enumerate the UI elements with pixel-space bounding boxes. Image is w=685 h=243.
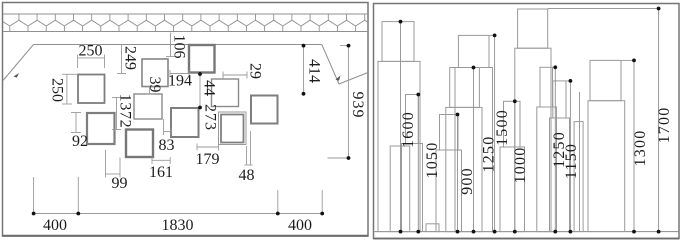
dim 106 xyxy=(166,33,175,57)
extension line 1700 xyxy=(548,8,659,10)
frame C xyxy=(134,94,162,119)
svg-text:106: 106 xyxy=(171,35,188,59)
svg-text:1300: 1300 xyxy=(632,130,649,167)
dim 99 xyxy=(106,150,121,178)
dim 39 xyxy=(145,87,154,94)
svg-text:250: 250 xyxy=(79,43,103,60)
column 1000 body xyxy=(500,147,525,232)
left panel bottom thick border xyxy=(3,235,369,237)
svg-text:1150: 1150 xyxy=(563,143,580,179)
svg-text:29: 29 xyxy=(246,63,263,79)
column 1600 body xyxy=(378,61,420,231)
dim 92 xyxy=(71,113,81,133)
column 1500 cap xyxy=(458,35,489,67)
dim 939 with dots xyxy=(348,46,350,158)
dim line 1700 xyxy=(658,9,660,232)
dim 48 xyxy=(245,131,253,165)
frame D xyxy=(126,130,153,158)
svg-text:1050: 1050 xyxy=(424,142,441,179)
column 1150 body xyxy=(550,118,570,232)
dim line 1600 xyxy=(400,22,402,232)
extension line 1300 xyxy=(621,59,634,61)
dim 161 xyxy=(152,157,170,164)
column 1250a cap xyxy=(450,68,480,108)
dim 83 xyxy=(164,119,172,135)
hatch band zigzag pattern xyxy=(0,14,374,32)
svg-text:92: 92 xyxy=(72,133,88,150)
column 1250a body xyxy=(446,107,482,231)
wall right break diagonal down xyxy=(322,45,339,85)
column 1600 cap xyxy=(382,22,414,62)
column 1050 cap xyxy=(406,95,419,144)
dim 1372 xyxy=(112,98,121,130)
svg-text:1372: 1372 xyxy=(117,94,134,128)
svg-text:1000: 1000 xyxy=(512,147,529,184)
svg-text:273: 273 xyxy=(202,104,219,131)
dim 44 / 273 with node dots xyxy=(199,74,201,108)
left panel border xyxy=(3,3,369,237)
dim line 1150 xyxy=(569,81,571,232)
svg-text:400: 400 xyxy=(288,217,312,234)
frame S5 xyxy=(212,79,239,107)
dim 414 with dots xyxy=(303,46,305,94)
svg-text:414: 414 xyxy=(306,59,323,83)
hidden column body xyxy=(390,146,410,232)
hatch band bottom line xyxy=(3,31,368,33)
dim 250 horizontal xyxy=(78,55,105,69)
small plinth xyxy=(426,224,439,232)
hidden column 2 body xyxy=(574,122,583,232)
frame S2 (250 square) xyxy=(78,75,105,104)
svg-text:1600: 1600 xyxy=(400,111,417,148)
column 1300 body xyxy=(588,101,625,232)
frame S4 (106 square) xyxy=(189,45,215,73)
svg-text:400: 400 xyxy=(43,217,67,234)
dim 250 vertical xyxy=(62,74,77,104)
right panel bottom thick border xyxy=(374,238,680,240)
svg-text:44: 44 xyxy=(201,80,218,96)
wall left break diagonal xyxy=(3,45,34,81)
svg-text:99: 99 xyxy=(112,175,128,192)
column 1000 cap xyxy=(504,101,521,147)
wall right break arrow xyxy=(336,76,341,81)
dim line 1050 xyxy=(417,95,419,232)
dim 179 xyxy=(197,144,219,151)
frame S3 xyxy=(142,59,168,87)
dim line 1250b xyxy=(554,67,556,231)
dim line 1250a xyxy=(473,68,475,232)
dim line 1500 xyxy=(494,35,496,231)
right panel border xyxy=(374,4,680,239)
wall top line xyxy=(34,44,322,46)
hatch band top line xyxy=(3,13,368,15)
column 1700 body xyxy=(515,48,551,231)
dim 29 xyxy=(223,72,247,79)
column 1700 cap xyxy=(518,9,548,48)
frame S6 outer xyxy=(219,112,247,145)
svg-text:939: 939 xyxy=(349,92,366,119)
dim line 1300 xyxy=(633,60,635,231)
column 1150 cap xyxy=(553,81,566,118)
frame S7 xyxy=(251,96,278,124)
dim 194 xyxy=(170,70,189,77)
svg-text:179: 179 xyxy=(196,151,220,168)
svg-text:161: 161 xyxy=(149,164,173,181)
column 900 cap xyxy=(440,115,459,151)
column 1300 cap xyxy=(590,60,621,100)
column 1250b body xyxy=(537,107,557,232)
extension line 1500 xyxy=(489,34,495,36)
svg-text:250: 250 xyxy=(49,78,66,102)
frame B (92 square) xyxy=(87,113,115,144)
dim line 900 xyxy=(457,115,459,232)
svg-text:48: 48 xyxy=(239,167,255,184)
svg-text:39: 39 xyxy=(146,77,163,93)
column 1250b cap xyxy=(540,67,553,107)
hidden column 2 edge xyxy=(579,92,581,232)
column 1500 body xyxy=(455,68,493,232)
dim 249 xyxy=(117,45,126,74)
column 1050 body xyxy=(402,144,423,232)
svg-text:194: 194 xyxy=(168,73,192,90)
svg-text:1700: 1700 xyxy=(656,107,673,144)
column 900 body xyxy=(436,150,462,232)
frame E xyxy=(171,108,199,137)
wall right break diagonal up to border xyxy=(339,73,368,85)
bottom dimension chain xyxy=(34,177,323,214)
wall left break arrow xyxy=(14,73,20,78)
svg-text:83: 83 xyxy=(159,137,175,154)
ground line xyxy=(375,231,680,233)
svg-text:1830: 1830 xyxy=(162,217,194,234)
dim line 1000 xyxy=(514,101,516,231)
extension line 1250b xyxy=(553,66,556,68)
extension line 1150 xyxy=(566,80,570,82)
frame S6 inner xyxy=(221,115,244,143)
svg-text:1500: 1500 xyxy=(494,109,511,146)
svg-text:249: 249 xyxy=(122,46,139,70)
